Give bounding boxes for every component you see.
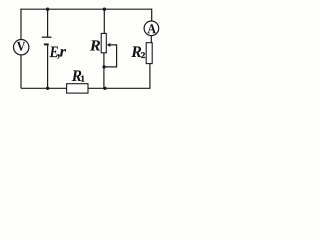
wire left upper xyxy=(20,9,22,40)
wire top rail xyxy=(21,8,152,10)
wire right branch lower xyxy=(149,64,151,89)
resistor R2 body xyxy=(146,43,152,64)
wire bottom rail xyxy=(21,87,151,89)
wire rheostat branch upper xyxy=(103,9,105,33)
label r of E,r xyxy=(60,49,66,56)
label subscript 1 of R1 xyxy=(81,76,84,82)
node battery bottom xyxy=(46,87,49,90)
ammeter letter A xyxy=(148,24,156,33)
node wiper junction xyxy=(102,65,105,68)
rheostat R body xyxy=(101,33,106,52)
wire ammeter to R2 xyxy=(150,36,152,43)
label R rheostat xyxy=(90,40,100,50)
ammeter U2 circle xyxy=(144,21,159,36)
battery long plate xyxy=(42,36,52,38)
wire battery branch upper xyxy=(47,9,49,36)
resistor R1 body xyxy=(67,84,88,93)
node rheostat top xyxy=(103,8,106,11)
voltmeter U1 circle xyxy=(14,40,29,55)
node battery top xyxy=(46,8,49,11)
label subscript 2 of R2 xyxy=(141,52,145,58)
wire right branch upper xyxy=(151,9,153,22)
label R of R2 xyxy=(131,46,141,57)
wire rheostat branch lower xyxy=(103,53,105,89)
wire battery branch lower xyxy=(47,45,49,88)
node rheostat bottom xyxy=(103,87,106,90)
wire left lower xyxy=(20,55,22,88)
battery short plate xyxy=(44,43,49,45)
voltmeter letter V xyxy=(17,42,25,51)
rheostat wiper arrowhead xyxy=(107,43,111,47)
label R of R1 xyxy=(72,70,82,81)
rheostat wiper wire xyxy=(104,45,117,67)
label E of E,r xyxy=(50,47,59,58)
label comma of E,r xyxy=(57,54,60,59)
